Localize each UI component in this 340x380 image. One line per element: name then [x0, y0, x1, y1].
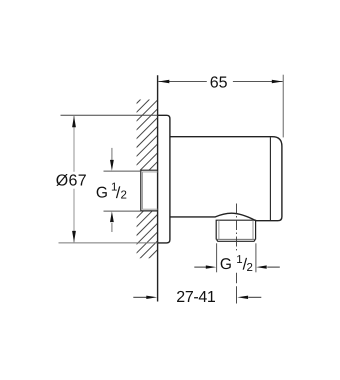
svg-text:65: 65 — [210, 74, 228, 91]
body outline — [170, 137, 282, 221]
svg-text:Ø67: Ø67 — [56, 173, 87, 190]
dim 65: right arrowhead — [272, 80, 283, 83]
G1/2 socket thread (behind wall) outer — [141, 170, 158, 211]
outlet dim G1/2: left extension line — [216, 243, 218, 272]
outlet dim G1/2: right extension line — [255, 243, 257, 272]
svg-text:G: G — [96, 184, 108, 201]
svg-text:2: 2 — [121, 190, 127, 202]
dim 27-41: left arrow — [133, 296, 146, 298]
dim d67: top extension line — [61, 114, 158, 116]
escutcheon flange (d67) — [158, 115, 170, 243]
outlet nut outline — [216, 220, 255, 241]
svg-text:G: G — [220, 256, 232, 273]
outlet dim G1/2: right arrow — [267, 266, 280, 268]
svg-text:27-41: 27-41 — [176, 289, 216, 306]
G1/2 socket thread inner (minor dia) — [143, 172, 158, 209]
nut facet line left — [218, 220, 220, 239]
dim d67: bottom extension line — [59, 242, 158, 244]
body end-cap seam — [269, 137, 271, 220]
thread dim G1/2: top arrow — [111, 148, 113, 161]
outlet dim G1/2: left arrow — [194, 266, 206, 268]
dim 65: right extension line — [282, 75, 284, 138]
dim 27-41: right arrow — [248, 296, 261, 298]
dim d67: bottom arrowhead — [72, 231, 76, 243]
wall surface line — [157, 75, 159, 301]
thread dim G1/2: bottom arrow — [111, 223, 113, 232]
centerline of outlet — [236, 204, 238, 251]
dim d67: top arrowhead — [72, 116, 76, 127]
nut chamfer line — [216, 238, 255, 240]
svg-text:2: 2 — [247, 262, 253, 274]
nut facet line right — [252, 220, 254, 239]
wall hatching — [0, 96, 320, 262]
dim 65: dimension line — [158, 81, 282, 83]
thread dim G1/2: bottom extension line — [104, 210, 141, 212]
thread dim G1/2: top extension line — [104, 170, 141, 172]
dim d67: dimension line — [73, 116, 75, 242]
dim 65: left arrowhead — [158, 80, 169, 83]
